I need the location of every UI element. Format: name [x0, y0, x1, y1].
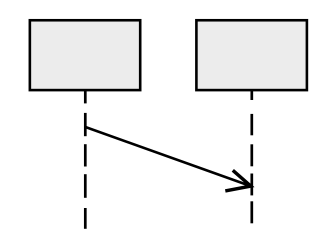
message arrow open head [225, 170, 251, 191]
lifeline 1 dashed line (left) [84, 91, 87, 229]
lifeline object box 1 (left) [30, 20, 140, 90]
message arrow shaft [85, 127, 250, 186]
lifeline object box 2 (right) [196, 20, 307, 90]
lifeline 2 dashed line (right) [250, 91, 253, 223]
